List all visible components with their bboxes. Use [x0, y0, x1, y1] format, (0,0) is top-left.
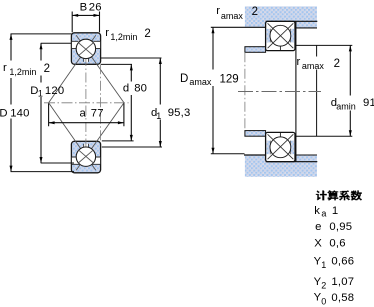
- housing lower profile: [244, 155, 317, 162]
- svg-text:X: X: [314, 238, 322, 250]
- dimension D bottom arrow: [10, 166, 13, 172]
- contact-angle load lines forming diamond: [49, 35, 124, 170]
- svg-text:1: 1: [38, 88, 43, 98]
- dimension D1 top arrow: [40, 43, 43, 49]
- svg-text:amin: amin: [336, 101, 356, 111]
- svg-text:95,3: 95,3: [168, 107, 191, 119]
- top ball: [76, 39, 95, 58]
- svg-text:amax: amax: [221, 11, 244, 21]
- svg-text:a: a: [321, 209, 326, 219]
- dimension damin bottom arrow: [349, 130, 352, 136]
- upper section ring patches: [267, 29, 271, 43]
- svg-text:77: 77: [91, 107, 104, 119]
- svg-text:D: D: [180, 73, 188, 85]
- svg-text:1: 1: [321, 260, 326, 270]
- svg-text:d: d: [123, 82, 129, 94]
- dimension d1 top arrow: [159, 58, 162, 64]
- dimension d1 bottom arrow: [159, 141, 162, 147]
- top section raceway gap right: [94, 41, 101, 48]
- dimension D1 bottom arrow: [40, 157, 43, 163]
- vertical centerline through balls: [85, 56, 87, 150]
- table title: calculation factors (CJK glyphs): [316, 190, 362, 200]
- bottom ball: [76, 147, 95, 166]
- dimension D1: dimension line with text gaps: [40, 43, 42, 163]
- bearing right face line: [295, 21, 297, 162]
- housing lower right retaining strip: [296, 155, 317, 161]
- dimension d top arrow: [130, 64, 133, 70]
- dimension damin top arrow: [349, 45, 352, 51]
- shaft shoulder face dash-dot line: [244, 52, 246, 130]
- bottom section raceway shoulder lines: [72, 157, 100, 164]
- dimension a left arrow: [49, 121, 55, 124]
- dimension B left arrow: [72, 14, 78, 17]
- housing upper profile with Damax extension line: [211, 21, 317, 27]
- svg-text:120: 120: [45, 85, 64, 97]
- svg-text:2: 2: [144, 28, 150, 40]
- svg-text:0: 0: [321, 297, 326, 307]
- svg-text:0,6: 0,6: [329, 238, 345, 250]
- upper bearing section outline: [266, 21, 295, 50]
- svg-text:80: 80: [134, 82, 147, 94]
- upper section ball: [270, 25, 291, 46]
- dimension d: dimension line with text gap: [130, 64, 132, 140]
- dimension a right arrow: [118, 121, 124, 124]
- lower section ring patches: [267, 141, 271, 155]
- upper section contact cross: [268, 23, 294, 48]
- svg-text:0,58: 0,58: [331, 292, 354, 304]
- vertical centerline at right face: [99, 64, 101, 141]
- svg-text:91: 91: [363, 97, 374, 109]
- svg-text:B: B: [80, 1, 88, 13]
- dimension D: dimension line with text gaps: [10, 34, 12, 172]
- dimension Damax bottom arrow: [212, 148, 215, 154]
- svg-text:1,2min: 1,2min: [110, 32, 137, 42]
- svg-text:amax: amax: [302, 61, 325, 71]
- bottom section split inner-ring notch: [84, 144, 89, 150]
- dimension damin: dimension line with text gap: [349, 45, 351, 136]
- svg-text:140: 140: [10, 107, 29, 119]
- svg-text:2: 2: [321, 281, 326, 291]
- svg-text:0,66: 0,66: [331, 256, 354, 268]
- svg-text:amax: amax: [189, 77, 212, 87]
- svg-text:129: 129: [220, 74, 239, 86]
- housing upper right retaining strip: [296, 22, 317, 28]
- top section raceway shoulder lines: [72, 41, 100, 48]
- dimension d1: dimension line with text gap: [159, 58, 161, 147]
- svg-text:k: k: [314, 205, 320, 217]
- lower section split notch line: [279, 133, 281, 137]
- shaft shoulder top and bottom edges with damin extension lines: [296, 45, 352, 136]
- svg-text:26: 26: [89, 1, 102, 13]
- bottom section raceway gap right: [94, 157, 101, 164]
- outer/inner ring bottom section: [71, 141, 100, 173]
- dimension d1: extension lines: [101, 58, 162, 147]
- svg-text:r: r: [3, 62, 7, 74]
- dimension B: extension and dimension lines: [72, 12, 99, 33]
- dimension a: extension and dimension lines: [49, 103, 124, 126]
- dimension B right arrow: [94, 14, 100, 17]
- dimension D: extension lines: [11, 34, 75, 172]
- lower section contact cross: [268, 134, 294, 159]
- svg-text:1: 1: [332, 205, 338, 217]
- svg-text:2: 2: [334, 58, 340, 70]
- top section split inner-ring notch: [84, 56, 89, 62]
- dimension Damax: dimension line with text gap: [212, 27, 214, 154]
- shaft shoulder strip upper left: [245, 47, 266, 53]
- housing upper block: [245, 6, 317, 27]
- svg-text:r: r: [216, 5, 220, 17]
- shaft shoulder strip lower left: [245, 131, 266, 137]
- svg-text:e: e: [315, 221, 321, 233]
- dimension D top arrow: [10, 34, 13, 40]
- svg-text:a: a: [80, 107, 87, 119]
- dimension d: extension lines: [101, 64, 134, 140]
- top section raceway gap left: [72, 41, 78, 48]
- upper section split notch line: [279, 46, 281, 50]
- svg-text:1,2min: 1,2min: [9, 67, 36, 77]
- top ball contact cross: [78, 43, 93, 56]
- svg-text:1: 1: [156, 111, 161, 121]
- svg-text:r: r: [297, 56, 301, 68]
- dimension d bottom arrow: [130, 135, 133, 141]
- svg-text:2: 2: [44, 63, 50, 75]
- axis centerline: [238, 91, 321, 93]
- Damax bottom extension line: [211, 153, 245, 155]
- svg-text:1,07: 1,07: [331, 276, 354, 288]
- lower bearing section outline: [266, 132, 295, 161]
- shaft break line with label gap: [316, 45, 318, 136]
- bottom section raceway gap left: [72, 157, 78, 164]
- svg-text:0,95: 0,95: [329, 221, 352, 233]
- horizontal axis centerline: [44, 102, 129, 104]
- lower section ball: [270, 137, 291, 158]
- dimension Damax top arrow: [212, 27, 215, 33]
- bottom ball contact cross: [78, 150, 93, 163]
- svg-text:r: r: [105, 27, 109, 39]
- dimension D1: extension lines: [41, 43, 74, 163]
- svg-text:D: D: [0, 107, 8, 119]
- housing lower block: [245, 155, 317, 177]
- outer/inner ring top section: [71, 33, 100, 65]
- svg-text:2: 2: [252, 6, 258, 18]
